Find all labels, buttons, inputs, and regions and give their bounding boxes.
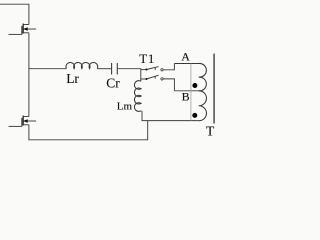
svg-text:Lr: Lr (66, 71, 79, 86)
svg-text:T1: T1 (139, 51, 155, 66)
svg-text:Lm: Lm (117, 100, 133, 112)
svg-text:T: T (206, 124, 215, 139)
svg-text:Cr: Cr (106, 76, 120, 91)
svg-text:B: B (182, 90, 190, 104)
svg-text:A: A (181, 50, 190, 64)
